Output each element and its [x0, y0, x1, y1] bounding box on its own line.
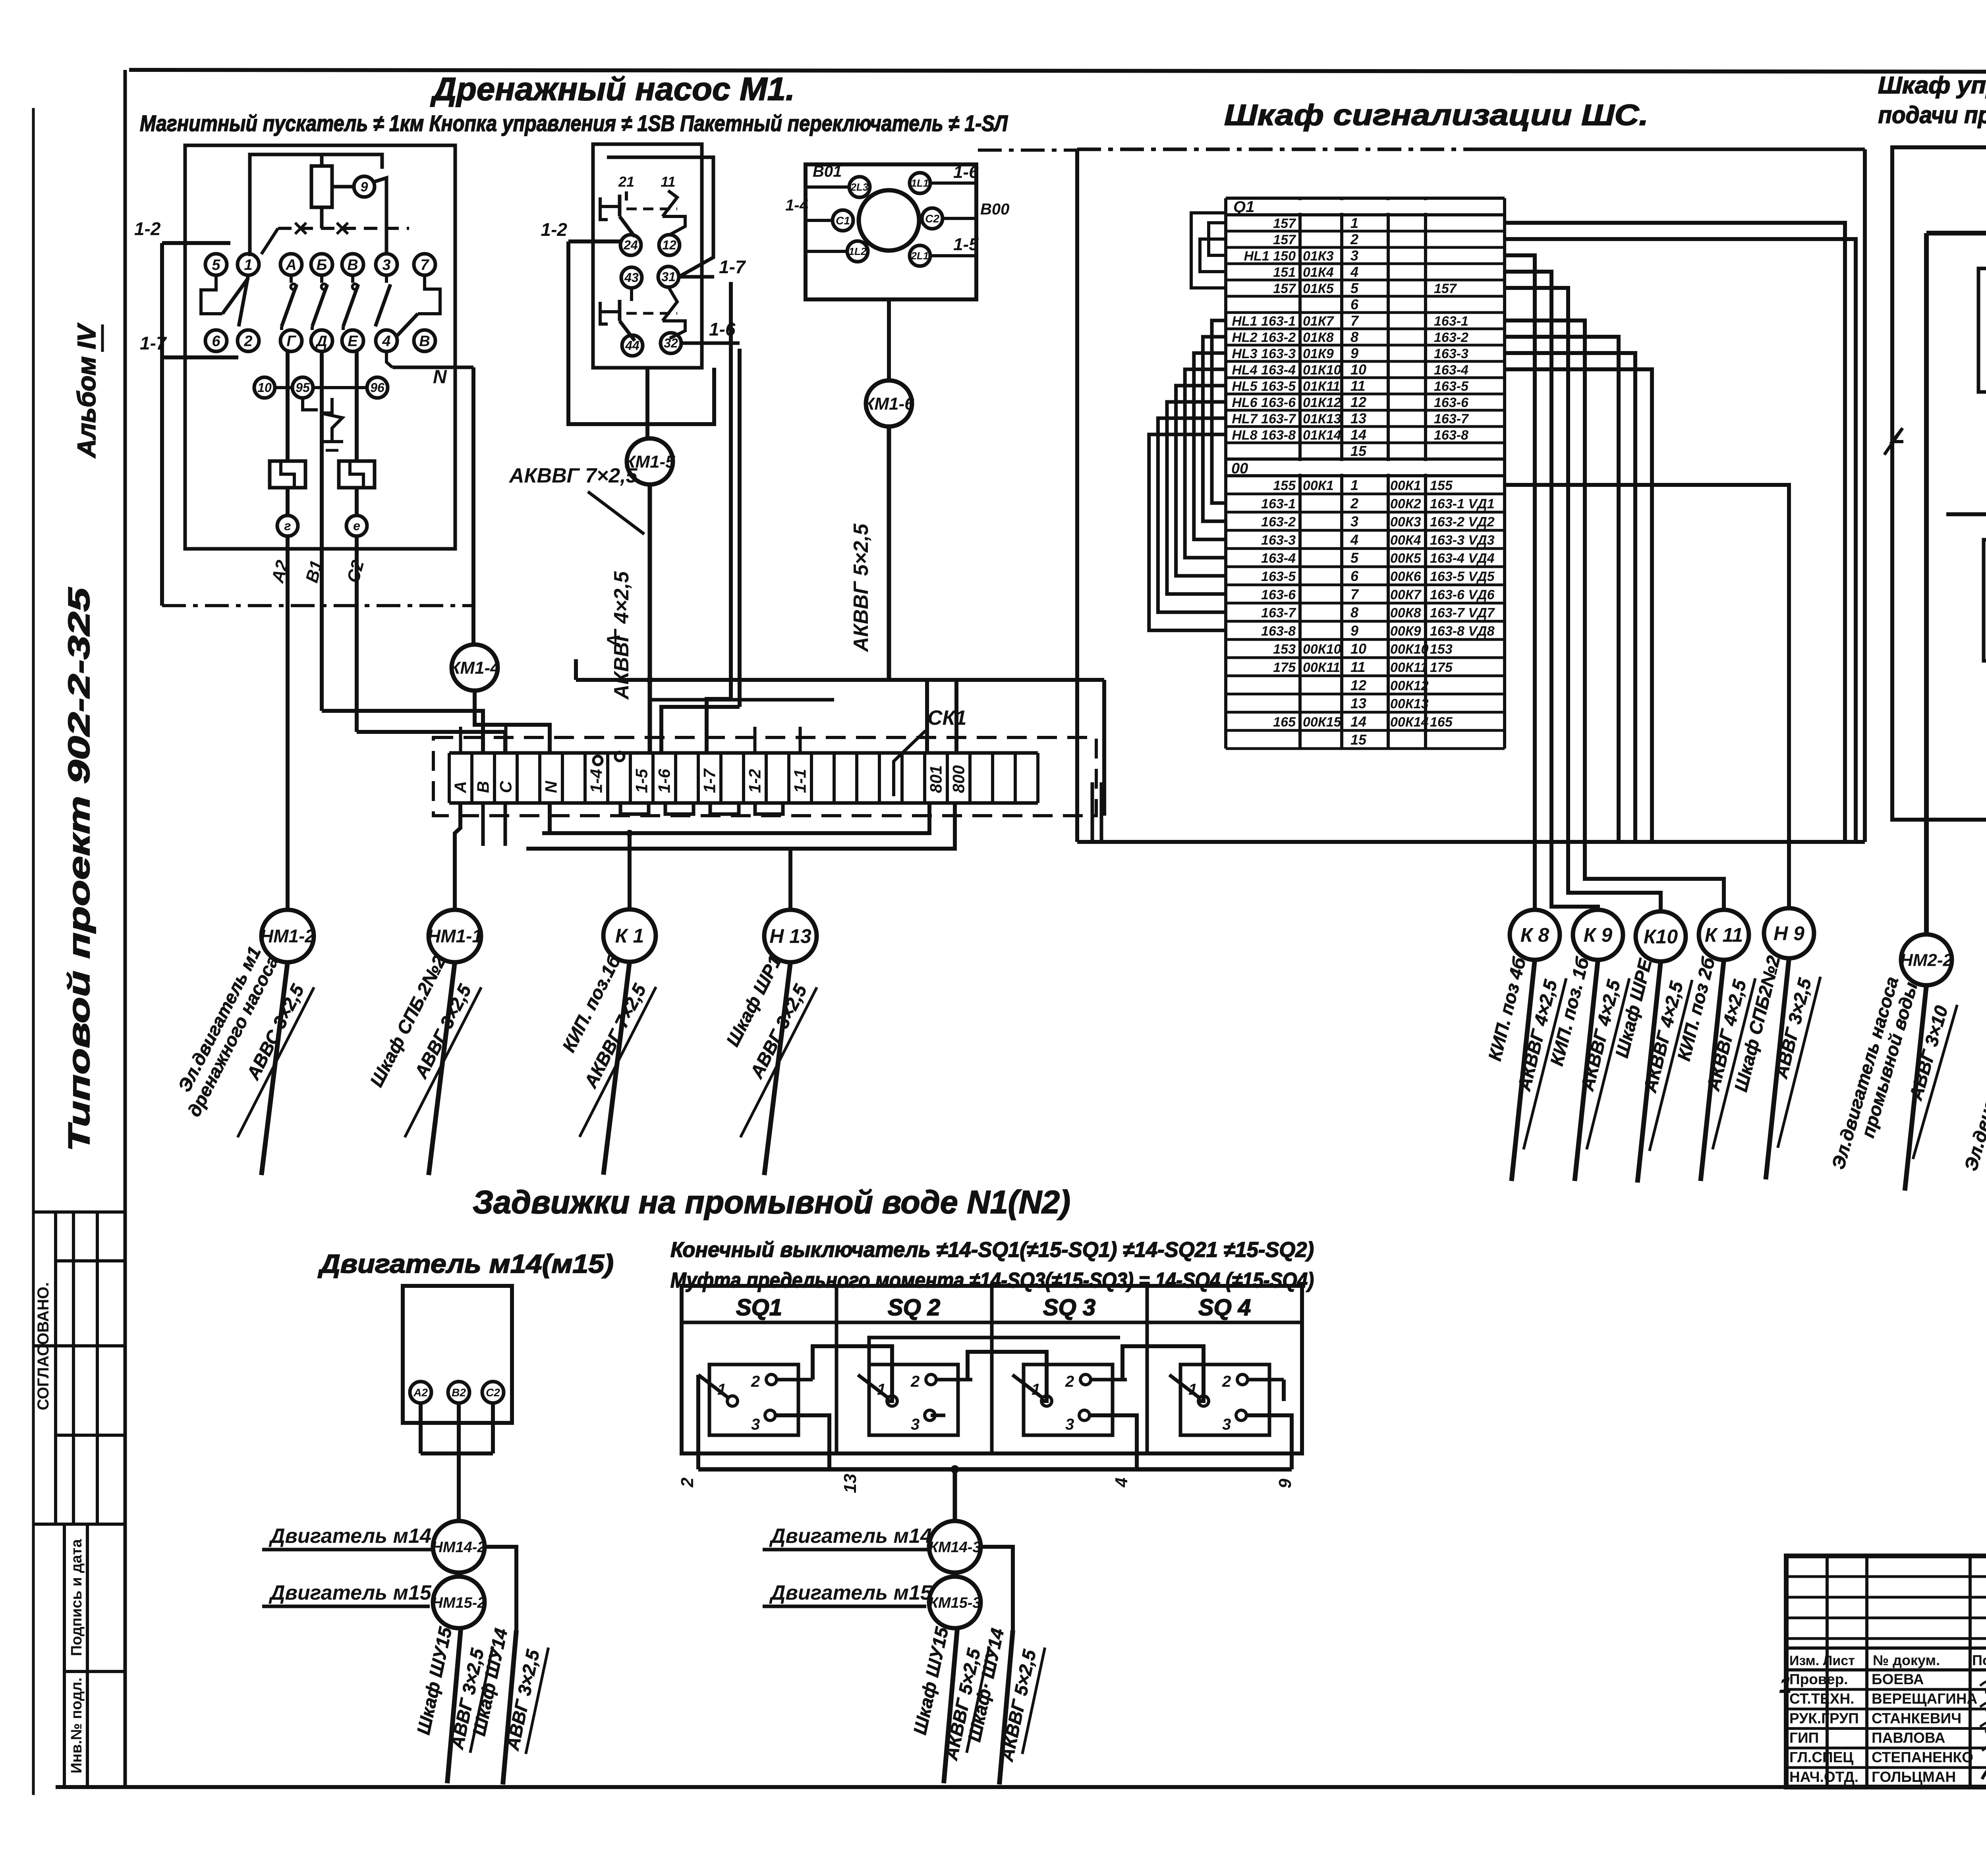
svg-text:96: 96 — [370, 380, 384, 395]
svg-text:НМ1-1: НМ1-1 — [427, 926, 482, 946]
svg-text:00К9: 00К9 — [1390, 623, 1421, 639]
svg-text:SQ 2: SQ 2 — [888, 1295, 940, 1320]
svg-text:НАЧ.ОТД.: НАЧ.ОТД. — [1789, 1769, 1858, 1785]
svg-text:00К8: 00К8 — [1390, 606, 1421, 621]
svg-text:00К7: 00К7 — [1390, 587, 1422, 602]
svg-text:01К12: 01К12 — [1303, 395, 1341, 410]
svg-text:Двигатель м14: Двигатель м14 — [269, 1525, 431, 1548]
svg-text:HL3 163-3: HL3 163-3 — [1232, 346, 1296, 361]
svg-text:21: 21 — [618, 174, 634, 190]
svg-text:5: 5 — [1350, 280, 1359, 296]
svg-text:5: 5 — [212, 257, 220, 273]
svg-text:2: 2 — [1350, 231, 1358, 247]
svg-text:157: 157 — [1273, 281, 1296, 296]
svg-text:163-5: 163-5 — [1261, 569, 1296, 584]
svg-text:В00: В00 — [980, 201, 1009, 218]
svg-text:К 9: К 9 — [1584, 924, 1613, 946]
svg-text:00К15: 00К15 — [1303, 714, 1342, 730]
svg-text:Шкаф ШУ15: Шкаф ШУ15 — [909, 1625, 952, 1737]
svg-text:А2: А2 — [413, 1386, 428, 1399]
svg-text:165: 165 — [1430, 714, 1453, 730]
svg-text:г: г — [284, 519, 291, 533]
svg-text:2L1: 2L1 — [911, 250, 929, 262]
svg-text:155: 155 — [1430, 478, 1453, 493]
svg-text:163-2: 163-2 — [1434, 330, 1468, 345]
svg-text:00К3: 00К3 — [1390, 515, 1421, 530]
svg-text:10: 10 — [1350, 361, 1366, 378]
svg-text:1: 1 — [1350, 477, 1358, 493]
svg-text:12: 12 — [662, 238, 676, 252]
svg-text:HL4 163-4: HL4 163-4 — [1232, 363, 1296, 378]
svg-text:HL1 150: HL1 150 — [1244, 249, 1296, 264]
svg-text:163-4: 163-4 — [1261, 551, 1296, 566]
svg-text:Альбом IV: Альбом IV — [72, 322, 101, 458]
svg-text:Двигатель м14: Двигатель м14 — [769, 1525, 932, 1548]
svg-text:К 11: К 11 — [1705, 924, 1743, 946]
svg-text:Q1: Q1 — [1233, 198, 1254, 216]
svg-text:Н 9: Н 9 — [1773, 923, 1804, 945]
svg-text:Д: Д — [315, 333, 327, 349]
svg-text:12: 12 — [1350, 394, 1366, 410]
svg-text:Н 13: Н 13 — [769, 925, 811, 948]
svg-text:А: А — [603, 634, 624, 648]
svg-text:HL1 163-1: HL1 163-1 — [1232, 314, 1296, 329]
svg-text:157: 157 — [1434, 281, 1457, 296]
svg-text:N: N — [433, 367, 447, 388]
svg-text:11: 11 — [661, 174, 675, 190]
svg-text:HL6 163-6: HL6 163-6 — [1232, 395, 1296, 410]
svg-text:3: 3 — [911, 1416, 920, 1433]
svg-text:3: 3 — [1222, 1416, 1231, 1433]
svg-text:В: В — [474, 781, 493, 793]
svg-text:00К10: 00К10 — [1303, 642, 1341, 657]
svg-text:13: 13 — [1350, 410, 1366, 427]
svg-text:7: 7 — [420, 257, 429, 273]
svg-text:БОЕВА: БОЕВА — [1872, 1671, 1924, 1687]
svg-text:А: А — [285, 257, 296, 273]
svg-text:ГИП: ГИП — [1789, 1730, 1819, 1746]
svg-text:С2: С2 — [486, 1386, 500, 1399]
svg-text:8: 8 — [1350, 329, 1358, 345]
svg-text:5: 5 — [1350, 550, 1359, 566]
svg-text:ВЕРЕЩАГИНА: ВЕРЕЩАГИНА — [1872, 1691, 1977, 1707]
svg-text:А: А — [451, 781, 470, 793]
svg-text:13: 13 — [840, 1474, 860, 1493]
svg-text:4: 4 — [1112, 1478, 1131, 1488]
svg-text:175: 175 — [1430, 660, 1453, 675]
svg-text:163-4: 163-4 — [1434, 363, 1468, 378]
svg-text:4: 4 — [1350, 264, 1358, 280]
svg-text:SQ 4: SQ 4 — [1198, 1295, 1251, 1320]
svg-text:В: В — [419, 333, 430, 349]
svg-text:95: 95 — [296, 380, 310, 395]
svg-text:163-8 VД8: 163-8 VД8 — [1430, 623, 1495, 639]
svg-text:00К6: 00К6 — [1390, 569, 1422, 584]
svg-text:7: 7 — [1350, 586, 1359, 602]
svg-text:АКВВГ 5×2,5: АКВВГ 5×2,5 — [850, 523, 873, 653]
svg-text:1-6: 1-6 — [953, 162, 979, 182]
svg-text:2L3: 2L3 — [850, 181, 869, 193]
svg-text:163-3 VД3: 163-3 VД3 — [1430, 533, 1495, 548]
svg-text:Эл.двигатель насоса: Эл.двигатель насоса — [1960, 976, 1986, 1173]
svg-text:163-3: 163-3 — [1261, 533, 1296, 548]
svg-text:3: 3 — [382, 257, 390, 273]
svg-text:1: 1 — [244, 257, 252, 273]
svg-text:11: 11 — [1350, 659, 1365, 675]
svg-text:9: 9 — [361, 179, 368, 195]
svg-text:АВВГ 3×10: АВВГ 3×10 — [1905, 1003, 1952, 1103]
svg-text:10: 10 — [1350, 641, 1366, 657]
svg-text:СТАНКЕВИЧ: СТАНКЕВИЧ — [1872, 1710, 1961, 1726]
svg-text:163-1 VД1: 163-1 VД1 — [1430, 496, 1495, 511]
svg-text:6: 6 — [212, 333, 220, 349]
svg-text:С1: С1 — [836, 214, 850, 227]
svg-text:01К3: 01К3 — [1303, 249, 1334, 264]
svg-text:9: 9 — [1350, 622, 1358, 639]
svg-text:Двигатель м14(м15): Двигатель м14(м15) — [318, 1249, 614, 1278]
svg-text:№ докум.: № докум. — [1873, 1652, 1940, 1668]
svg-text:01К7: 01К7 — [1303, 314, 1335, 329]
svg-text:163-7 VД7: 163-7 VД7 — [1430, 606, 1495, 621]
svg-text:01К14: 01К14 — [1303, 428, 1341, 443]
svg-text:1-2: 1-2 — [541, 219, 568, 240]
svg-text:2: 2 — [678, 1477, 697, 1488]
svg-text:9: 9 — [1275, 1478, 1295, 1488]
svg-text:3: 3 — [751, 1416, 760, 1433]
svg-text:Типовой проект 902-2-325: Типовой проект 902-2-325 — [62, 587, 96, 1152]
svg-text:44: 44 — [625, 338, 639, 353]
svg-text:Шкаф ШРЕ: Шкаф ШРЕ — [1611, 956, 1656, 1060]
svg-text:163-2: 163-2 — [1261, 515, 1296, 530]
svg-text:01К5: 01К5 — [1303, 281, 1334, 296]
svg-text:3: 3 — [1065, 1416, 1074, 1433]
svg-text:163-1: 163-1 — [1261, 496, 1296, 511]
svg-text:00К12: 00К12 — [1390, 678, 1429, 693]
svg-text:1: 1 — [1779, 1673, 1791, 1697]
svg-text:С2: С2 — [925, 212, 939, 225]
svg-text:153: 153 — [1430, 642, 1453, 657]
svg-text:800: 800 — [949, 765, 968, 793]
svg-text:КМ14-3: КМ14-3 — [929, 1539, 981, 1556]
svg-text:СОГЛАСОВАНО.: СОГЛАСОВАНО. — [35, 1282, 52, 1411]
svg-text:14: 14 — [1350, 427, 1366, 443]
svg-text:Изм. Лист: Изм. Лист — [1789, 1653, 1855, 1668]
svg-text:163-6: 163-6 — [1261, 587, 1296, 602]
svg-text:00К11: 00К11 — [1390, 660, 1428, 675]
svg-text:163-5 VД5: 163-5 VД5 — [1430, 569, 1495, 584]
svg-text:Магнитный пускатель ≠ 1км Кноп: Магнитный пускатель ≠ 1км Кнопка управле… — [140, 111, 1008, 136]
svg-text:2: 2 — [1222, 1373, 1231, 1390]
svg-text:Подпись и дата: Подпись и дата — [68, 1539, 85, 1656]
svg-text:В01: В01 — [813, 163, 842, 180]
svg-text:Двигатель м15: Двигатель м15 — [269, 1581, 432, 1604]
svg-text:1-7: 1-7 — [719, 257, 746, 277]
svg-text:10: 10 — [257, 380, 272, 395]
svg-text:К10: К10 — [1644, 926, 1678, 948]
svg-text:153: 153 — [1273, 642, 1296, 657]
svg-text:00К11: 00К11 — [1303, 660, 1340, 675]
svg-text:Г: Г — [286, 333, 296, 349]
svg-text:SQ1: SQ1 — [736, 1295, 782, 1320]
svg-text:е: е — [353, 519, 360, 533]
svg-text:8: 8 — [1350, 604, 1358, 621]
svg-text:00К5: 00К5 — [1390, 551, 1422, 566]
svg-text:00К1: 00К1 — [1390, 478, 1421, 493]
svg-text:Дренажный насос М1.: Дренажный насос М1. — [430, 71, 795, 107]
svg-text:СТЕПАНЕНКО: СТЕПАНЕНКО — [1872, 1749, 1973, 1766]
svg-text:00К13: 00К13 — [1390, 697, 1429, 712]
svg-text:15: 15 — [1350, 443, 1367, 459]
svg-text:00К2: 00К2 — [1390, 496, 1421, 511]
svg-text:1-6: 1-6 — [709, 319, 736, 340]
svg-text:КМ1-6: КМ1-6 — [864, 394, 914, 413]
svg-text:4: 4 — [382, 333, 390, 349]
svg-text:6: 6 — [1350, 568, 1359, 584]
svg-text:24: 24 — [623, 238, 638, 252]
svg-text:163-7: 163-7 — [1261, 606, 1296, 621]
svg-text:2: 2 — [1065, 1373, 1074, 1390]
svg-text:С: С — [496, 781, 515, 793]
svg-text:15: 15 — [1350, 731, 1367, 748]
svg-text:HL5 163-5: HL5 163-5 — [1232, 379, 1296, 394]
svg-text:01К10: 01К10 — [1303, 363, 1341, 378]
svg-text:СТ.ТЕХН.: СТ.ТЕХН. — [1789, 1691, 1854, 1707]
svg-text:КМ15-3: КМ15-3 — [929, 1594, 981, 1611]
svg-text:Инв.№ подл.: Инв.№ подл. — [68, 1677, 85, 1774]
svg-text:Двигатель м15: Двигатель м15 — [769, 1581, 932, 1604]
svg-text:К 1: К 1 — [615, 925, 644, 947]
svg-text:ПАВЛОВА: ПАВЛОВА — [1872, 1730, 1945, 1746]
svg-text:2: 2 — [910, 1373, 920, 1390]
svg-text:HL8 163-8: HL8 163-8 — [1232, 428, 1296, 443]
svg-text:1-2: 1-2 — [746, 769, 764, 793]
svg-text:01К9: 01К9 — [1303, 346, 1334, 361]
svg-text:163-2 VД2: 163-2 VД2 — [1430, 515, 1495, 530]
svg-text:СК1: СК1 — [927, 706, 966, 730]
svg-text:01К11: 01К11 — [1303, 379, 1340, 394]
svg-text:14: 14 — [1350, 713, 1366, 730]
svg-text:00К10: 00К10 — [1390, 642, 1429, 657]
svg-text:КМ1-4: КМ1-4 — [449, 658, 500, 677]
svg-text:1-5: 1-5 — [632, 769, 651, 793]
svg-text:2: 2 — [243, 333, 252, 349]
svg-text:163-3: 163-3 — [1434, 346, 1468, 361]
svg-text:157: 157 — [1273, 216, 1296, 231]
svg-text:Провер.: Провер. — [1789, 1671, 1848, 1687]
svg-text:N: N — [542, 780, 560, 793]
svg-text:КИП. поз 4б: КИП. поз 4б — [1484, 955, 1530, 1063]
svg-text:НМ15-2: НМ15-2 — [432, 1594, 485, 1611]
svg-text:SQ 3: SQ 3 — [1043, 1295, 1095, 1320]
svg-text:РУК.ГРУП: РУК.ГРУП — [1789, 1710, 1859, 1726]
svg-text:Шкаф ШУ15: Шкаф ШУ15 — [413, 1625, 456, 1737]
svg-text:3: 3 — [1350, 513, 1358, 530]
svg-text:1L2: 1L2 — [849, 245, 867, 257]
svg-text:01К4: 01К4 — [1303, 265, 1334, 280]
svg-text:163-6: 163-6 — [1434, 395, 1469, 410]
svg-text:2: 2 — [1350, 495, 1358, 511]
svg-text:1-2: 1-2 — [134, 218, 161, 239]
svg-text:1-1: 1-1 — [791, 769, 809, 793]
svg-text:1L1: 1L1 — [911, 177, 929, 189]
svg-text:Шкаф сигнализации ШС.: Шкаф сигнализации ШС. — [1224, 98, 1648, 131]
svg-text:163-8: 163-8 — [1434, 428, 1468, 443]
svg-text:163-5: 163-5 — [1434, 379, 1469, 394]
svg-text:151: 151 — [1273, 265, 1296, 280]
svg-text:НМ1-2: НМ1-2 — [260, 926, 315, 946]
svg-text:163-6 VД6: 163-6 VД6 — [1430, 587, 1495, 602]
svg-text:1-4: 1-4 — [785, 197, 808, 214]
svg-text:К 8: К 8 — [1520, 924, 1549, 946]
svg-text:1: 1 — [1350, 215, 1358, 231]
svg-text:01К8: 01К8 — [1303, 330, 1334, 345]
svg-text:00К1: 00К1 — [1303, 478, 1334, 493]
svg-text:АКВВГ 7×2,5: АКВВГ 7×2,5 — [508, 464, 638, 487]
svg-text:11: 11 — [1350, 378, 1365, 394]
svg-text:165: 165 — [1273, 714, 1296, 730]
svg-text:9: 9 — [1350, 345, 1358, 361]
svg-text:НМ14-2: НМ14-2 — [432, 1539, 485, 1556]
svg-text:00К14: 00К14 — [1390, 714, 1429, 730]
svg-text:163-1: 163-1 — [1434, 314, 1468, 329]
svg-text:HL7 163-7: HL7 163-7 — [1232, 411, 1296, 427]
svg-text:32: 32 — [664, 336, 678, 350]
svg-text:1-6: 1-6 — [655, 769, 674, 793]
svg-text:155: 155 — [1273, 478, 1296, 493]
svg-text:801: 801 — [927, 765, 945, 793]
svg-text:12: 12 — [1350, 677, 1366, 693]
svg-text:7: 7 — [1350, 313, 1359, 329]
svg-text:HL2 163-2: HL2 163-2 — [1232, 330, 1296, 345]
svg-text:163-7: 163-7 — [1434, 411, 1469, 427]
svg-text:31: 31 — [661, 270, 676, 284]
svg-text:1-7: 1-7 — [700, 768, 719, 793]
svg-text:163-8: 163-8 — [1261, 623, 1296, 639]
svg-text:С2: С2 — [343, 558, 368, 585]
svg-text:Подпись: Подпись — [1972, 1652, 1986, 1668]
svg-text:Б: Б — [317, 257, 327, 273]
svg-text:163-4 VД4: 163-4 VД4 — [1430, 551, 1495, 566]
svg-text:ГОЛЬЦМАН: ГОЛЬЦМАН — [1872, 1769, 1956, 1785]
svg-text:4: 4 — [1350, 531, 1358, 548]
svg-text:1-7: 1-7 — [140, 333, 167, 353]
svg-text:01К13: 01К13 — [1303, 411, 1341, 427]
svg-text:В: В — [347, 257, 358, 273]
svg-text:00К4: 00К4 — [1390, 533, 1421, 548]
svg-text:3: 3 — [1350, 247, 1358, 264]
svg-text:Конечный выключатель ≠14-SQ1(≠: Конечный выключатель ≠14-SQ1(≠15-SQ1) ≠1… — [670, 1238, 1314, 1262]
svg-text:1-5: 1-5 — [953, 235, 979, 254]
svg-text:13: 13 — [1350, 695, 1366, 712]
svg-text:ГЛ.СПЕЦ: ГЛ.СПЕЦ — [1789, 1749, 1853, 1766]
svg-text:В2: В2 — [452, 1386, 466, 1399]
svg-text:1-4: 1-4 — [587, 769, 606, 793]
svg-text:43: 43 — [624, 270, 639, 285]
svg-text:6: 6 — [1350, 296, 1359, 313]
svg-text:175: 175 — [1273, 660, 1296, 675]
svg-text:00: 00 — [1231, 460, 1248, 477]
svg-text:подачи промывной воды ШУ2: подачи промывной воды ШУ2 — [1878, 102, 1986, 128]
svg-text:2: 2 — [751, 1373, 760, 1390]
svg-text:Шкаф управления насосами: Шкаф управления насосами — [1878, 72, 1986, 98]
svg-text:НМ2-2: НМ2-2 — [1900, 950, 1953, 970]
svg-text:157: 157 — [1273, 232, 1296, 247]
svg-text:Задвижки на промывной воде: Задвижки на промывной воде N1(N2) — [473, 1184, 1070, 1220]
svg-text:Е: Е — [348, 333, 358, 349]
